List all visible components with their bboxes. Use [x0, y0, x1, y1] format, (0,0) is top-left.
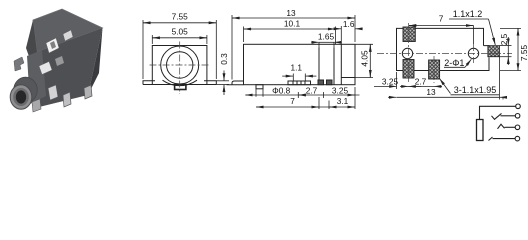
dim 7.55 right view4	[500, 28, 521, 70]
side body	[244, 44, 356, 84]
pad top-left	[403, 27, 415, 42]
svg-text:1.1x1.2: 1.1x1.2	[453, 9, 483, 19]
dim 4.05 view3	[355, 44, 373, 77]
svg-text:1.1: 1.1	[291, 63, 303, 73]
side metal contact	[39, 62, 52, 75]
terminal 4	[515, 136, 520, 141]
centerline vertical hole2	[473, 44, 475, 63]
jack top face slab	[33, 9, 103, 52]
leg D front-left	[32, 99, 41, 112]
internal line right section	[340, 44, 342, 84]
dims bottom row A view3	[245, 89, 359, 98]
slot notch 2	[63, 30, 73, 41]
svg-text:3-1.1x1.95: 3-1.1x1.95	[454, 85, 497, 95]
hole 2	[468, 48, 478, 58]
wire tip to terminal 1	[480, 106, 516, 119]
svg-text:3.25: 3.25	[332, 86, 349, 96]
pad right	[488, 46, 500, 57]
side metal small	[55, 56, 64, 66]
pin phi0.8	[256, 85, 263, 89]
svg-text:13: 13	[286, 8, 296, 18]
switch contact row 2	[492, 113, 502, 119]
svg-text:1.65: 1.65	[318, 31, 335, 41]
svg-text:7: 7	[290, 96, 295, 106]
barrel face ring	[10, 85, 32, 109]
svg-text:3.1: 3.1	[337, 96, 349, 106]
dim 7.55 top	[143, 20, 216, 79]
dim 5.05	[152, 35, 207, 44]
svg-text:0.3: 0.3	[219, 53, 229, 65]
plug body	[477, 120, 484, 141]
inner circle	[167, 52, 193, 78]
svg-text:4.05: 4.05	[360, 50, 370, 67]
centerline horizontal view4	[377, 53, 512, 55]
internal line b	[333, 48, 335, 85]
svg-text:2-Φ1: 2-Φ1	[444, 58, 464, 68]
bottom view body outline	[397, 28, 490, 70]
dim 2.5 right pad	[499, 37, 511, 65]
dim 3.25 view4	[374, 72, 421, 89]
svg-text:1.6: 1.6	[343, 19, 355, 29]
dim 2.7 view4	[400, 85, 442, 87]
terminal 1	[516, 104, 521, 109]
bottom tab	[175, 85, 186, 90]
boss arc bottom	[163, 80, 198, 85]
leg C	[84, 85, 92, 99]
foot bottom-left	[232, 81, 244, 85]
jack left face band	[26, 20, 37, 62]
jack front face	[35, 28, 103, 108]
svg-text:2.7: 2.7	[415, 77, 427, 87]
step in right section	[341, 77, 355, 79]
dim 7 view4	[409, 26, 474, 45]
left flange	[143, 81, 155, 85]
dim 1.6 view3	[334, 26, 363, 44]
barrel sleeve	[27, 50, 46, 104]
pad bottom 2	[429, 60, 440, 79]
bottom tab 2	[318, 80, 324, 85]
svg-text:7.55: 7.55	[519, 45, 528, 62]
slot contact insert	[50, 41, 56, 49]
barrel boss	[14, 77, 38, 103]
terminal 3	[515, 125, 520, 130]
bottom edge	[143, 84, 216, 86]
svg-text:7.55: 7.55	[172, 12, 189, 22]
terminal 2	[515, 114, 520, 119]
dim 0.3 right	[216, 71, 229, 96]
internal line a	[318, 48, 320, 85]
centerline vertical pad2	[433, 56, 435, 83]
svg-text:7: 7	[439, 14, 444, 24]
svg-text:3.25: 3.25	[382, 77, 399, 87]
svg-text:13: 13	[426, 87, 436, 97]
switch contact row 4	[489, 137, 493, 141]
slot contact white 1	[46, 38, 59, 53]
hole 1	[402, 48, 412, 58]
leg B	[63, 92, 71, 107]
dims bottom row B view3	[256, 87, 355, 109]
dim 10.1 view3	[244, 27, 336, 45]
front body	[152, 46, 207, 85]
switch contact row 3	[498, 124, 505, 129]
bottom edge extension left	[227, 84, 244, 86]
svg-text:5.05: 5.05	[172, 27, 189, 37]
right flange	[204, 81, 216, 85]
svg-text:2.5: 2.5	[499, 33, 509, 45]
jack right face sliver	[88, 28, 103, 95]
svg-text:2.7: 2.7	[306, 86, 318, 96]
left contact teeth	[14, 57, 24, 71]
centerline vertical view2	[179, 42, 181, 95]
dim 13 top view3	[232, 15, 355, 80]
svg-text:10.1: 10.1	[284, 19, 301, 29]
pad bottom 1	[403, 60, 414, 79]
outer circle	[161, 46, 199, 84]
centerline vertical pad1	[408, 23, 410, 82]
dim 1.65 view3	[311, 42, 341, 47]
dim 1.1 view3	[282, 74, 316, 81]
barrel ring mid	[13, 88, 29, 106]
barrel hole	[16, 90, 26, 103]
bottom tab 1	[288, 81, 311, 85]
svg-text:Φ0.8: Φ0.8	[272, 86, 291, 96]
centerline horizontal view2	[150, 64, 211, 66]
dim 13 view4	[388, 57, 505, 100]
leg A	[48, 85, 58, 100]
